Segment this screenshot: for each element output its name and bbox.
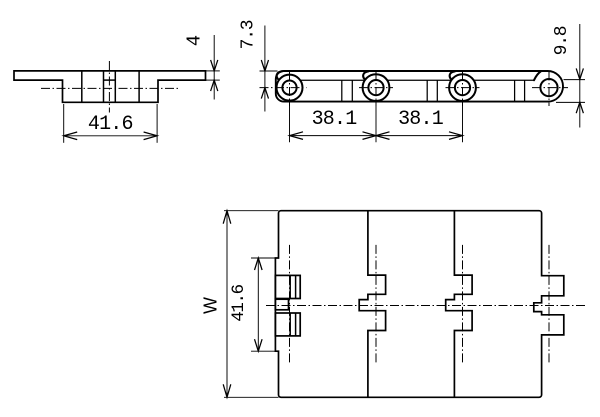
hinge edge line left xyxy=(81,71,83,102)
knuckle 1 pin circle xyxy=(282,81,296,95)
dim 4 arrow bottom xyxy=(211,80,218,91)
dim 4 line xyxy=(213,35,215,100)
left end middle eye xyxy=(275,299,288,310)
knuckle 2 outer circle xyxy=(363,74,390,101)
hinge gap line pair 1a xyxy=(341,80,343,101)
svg-text:38.1: 38.1 xyxy=(398,108,444,131)
svg-text:W: W xyxy=(201,297,221,314)
dim 4 arrow top xyxy=(211,60,218,71)
dim 41.6 extension right xyxy=(156,104,158,143)
hinge gap line pair 3b xyxy=(524,80,526,101)
knuckle 1 h-centerline xyxy=(260,87,307,89)
dim W arrow top xyxy=(223,211,231,224)
knuckle 2 h-centerline xyxy=(359,87,393,89)
dim W extension bottom xyxy=(224,396,279,398)
left end hinge eye 1 inner lines xyxy=(289,275,291,298)
pin line right xyxy=(114,71,116,102)
pin top line xyxy=(104,79,116,81)
dim 41.6 plan extension top xyxy=(251,257,278,259)
svg-text:4: 4 xyxy=(184,35,206,46)
knuckle 3 outer circle xyxy=(449,74,476,101)
dim 4 extension bottom xyxy=(206,79,220,81)
dim 41.6 arrow left xyxy=(64,132,77,140)
dim 41.6 plan line xyxy=(257,258,259,351)
left end hinge eye 2 inner lines xyxy=(289,313,291,336)
pin axis centerline 4 xyxy=(548,245,550,363)
svg-text:7.3: 7.3 xyxy=(239,20,259,49)
pin axis centerline 2 xyxy=(375,245,377,363)
hinge gap line pair 2a xyxy=(426,80,428,101)
knuckle 2 v-centerline xyxy=(375,72,377,107)
dim 7.3 arrow top xyxy=(261,60,268,71)
dim 9.8 arrow top xyxy=(576,68,583,79)
knuckle 2 pin circle xyxy=(368,80,383,95)
knuckle 4 h-centerline xyxy=(532,87,568,89)
pin axis centerline 1 xyxy=(289,245,291,363)
pin axis centerline 3 xyxy=(462,245,464,363)
plate underside line segment 3 xyxy=(473,79,534,81)
joint castellation plate2-plate3 xyxy=(446,211,472,398)
dim 41.6 line xyxy=(64,135,157,137)
dim 9.8 line xyxy=(579,24,581,128)
svg-text:41.6: 41.6 xyxy=(229,284,249,321)
knuckle 3 pin circle xyxy=(455,80,470,95)
dim 7.3 extension top xyxy=(260,70,278,72)
plate outline xyxy=(14,71,206,102)
dim 38.1 extension 1 xyxy=(289,106,291,142)
hinge gap line pair 1b xyxy=(351,80,353,101)
dim 38.1 arrow 3 xyxy=(449,132,463,140)
knuckle 3 v-centerline xyxy=(462,72,464,107)
chain outer boundary xyxy=(275,211,563,398)
knuckle 2 curl xyxy=(363,71,368,79)
dim W extension top xyxy=(224,210,279,212)
strip outline xyxy=(276,71,563,102)
dim 9.8 extension top xyxy=(564,79,586,81)
dim W arrow bottom xyxy=(223,384,231,397)
plan horizontal centerline xyxy=(266,305,585,307)
pin line left xyxy=(103,71,105,102)
dim 41.6 plan arrow bottom xyxy=(255,339,263,351)
knuckle 4 v-centerline xyxy=(548,72,550,107)
dim W line xyxy=(226,211,228,398)
svg-text:41.6: 41.6 xyxy=(88,113,133,136)
dim 38.1 extension 3 xyxy=(462,106,464,142)
vertical centerline xyxy=(108,61,110,113)
joint castellation plate1-plate2 xyxy=(359,211,385,398)
dim 38.1 extension 2 xyxy=(375,106,377,142)
dim 4 extension top xyxy=(206,70,220,72)
hinge gap line pair 2b xyxy=(436,80,438,101)
dim 38.1 arrows middle xyxy=(363,132,377,140)
dim 41.6 plan extension bottom xyxy=(251,350,278,352)
plate underside line segment 2 xyxy=(387,79,452,81)
knuckle 1 v-centerline xyxy=(289,72,291,107)
knuckle 3 h-centerline xyxy=(446,87,480,89)
knuckle 1 outer circle xyxy=(277,75,303,101)
dim 41.6 arrow right xyxy=(144,132,158,140)
dim 9.8 extension bottom xyxy=(556,101,585,103)
dim 38.1 arrow 1 xyxy=(290,132,304,140)
svg-text:9.8: 9.8 xyxy=(552,26,572,55)
left end hinge eye 1 xyxy=(275,275,300,298)
dim 9.8 arrow bottom xyxy=(576,102,583,113)
svg-text:38.1: 38.1 xyxy=(312,108,358,131)
knuckle 4 pin circle xyxy=(540,79,557,96)
horizontal centerline xyxy=(41,87,178,89)
dim 41.6 plan arrow top xyxy=(255,258,263,270)
dim 41.6 extension left xyxy=(63,104,65,143)
knuckle 1 curl xyxy=(277,71,282,79)
plate underside line segment 1 xyxy=(300,79,365,81)
left end hinge eye 2 xyxy=(275,313,300,336)
dim 7.3 line xyxy=(264,26,266,112)
knuckle 3 curl xyxy=(450,71,455,79)
hinge edge line right xyxy=(138,71,140,102)
hinge gap line pair 3a xyxy=(514,80,516,101)
dim 38.1 line xyxy=(290,135,463,137)
dim 7.3 arrow bottom xyxy=(261,88,268,99)
knuckle 4 curl xyxy=(534,71,541,80)
